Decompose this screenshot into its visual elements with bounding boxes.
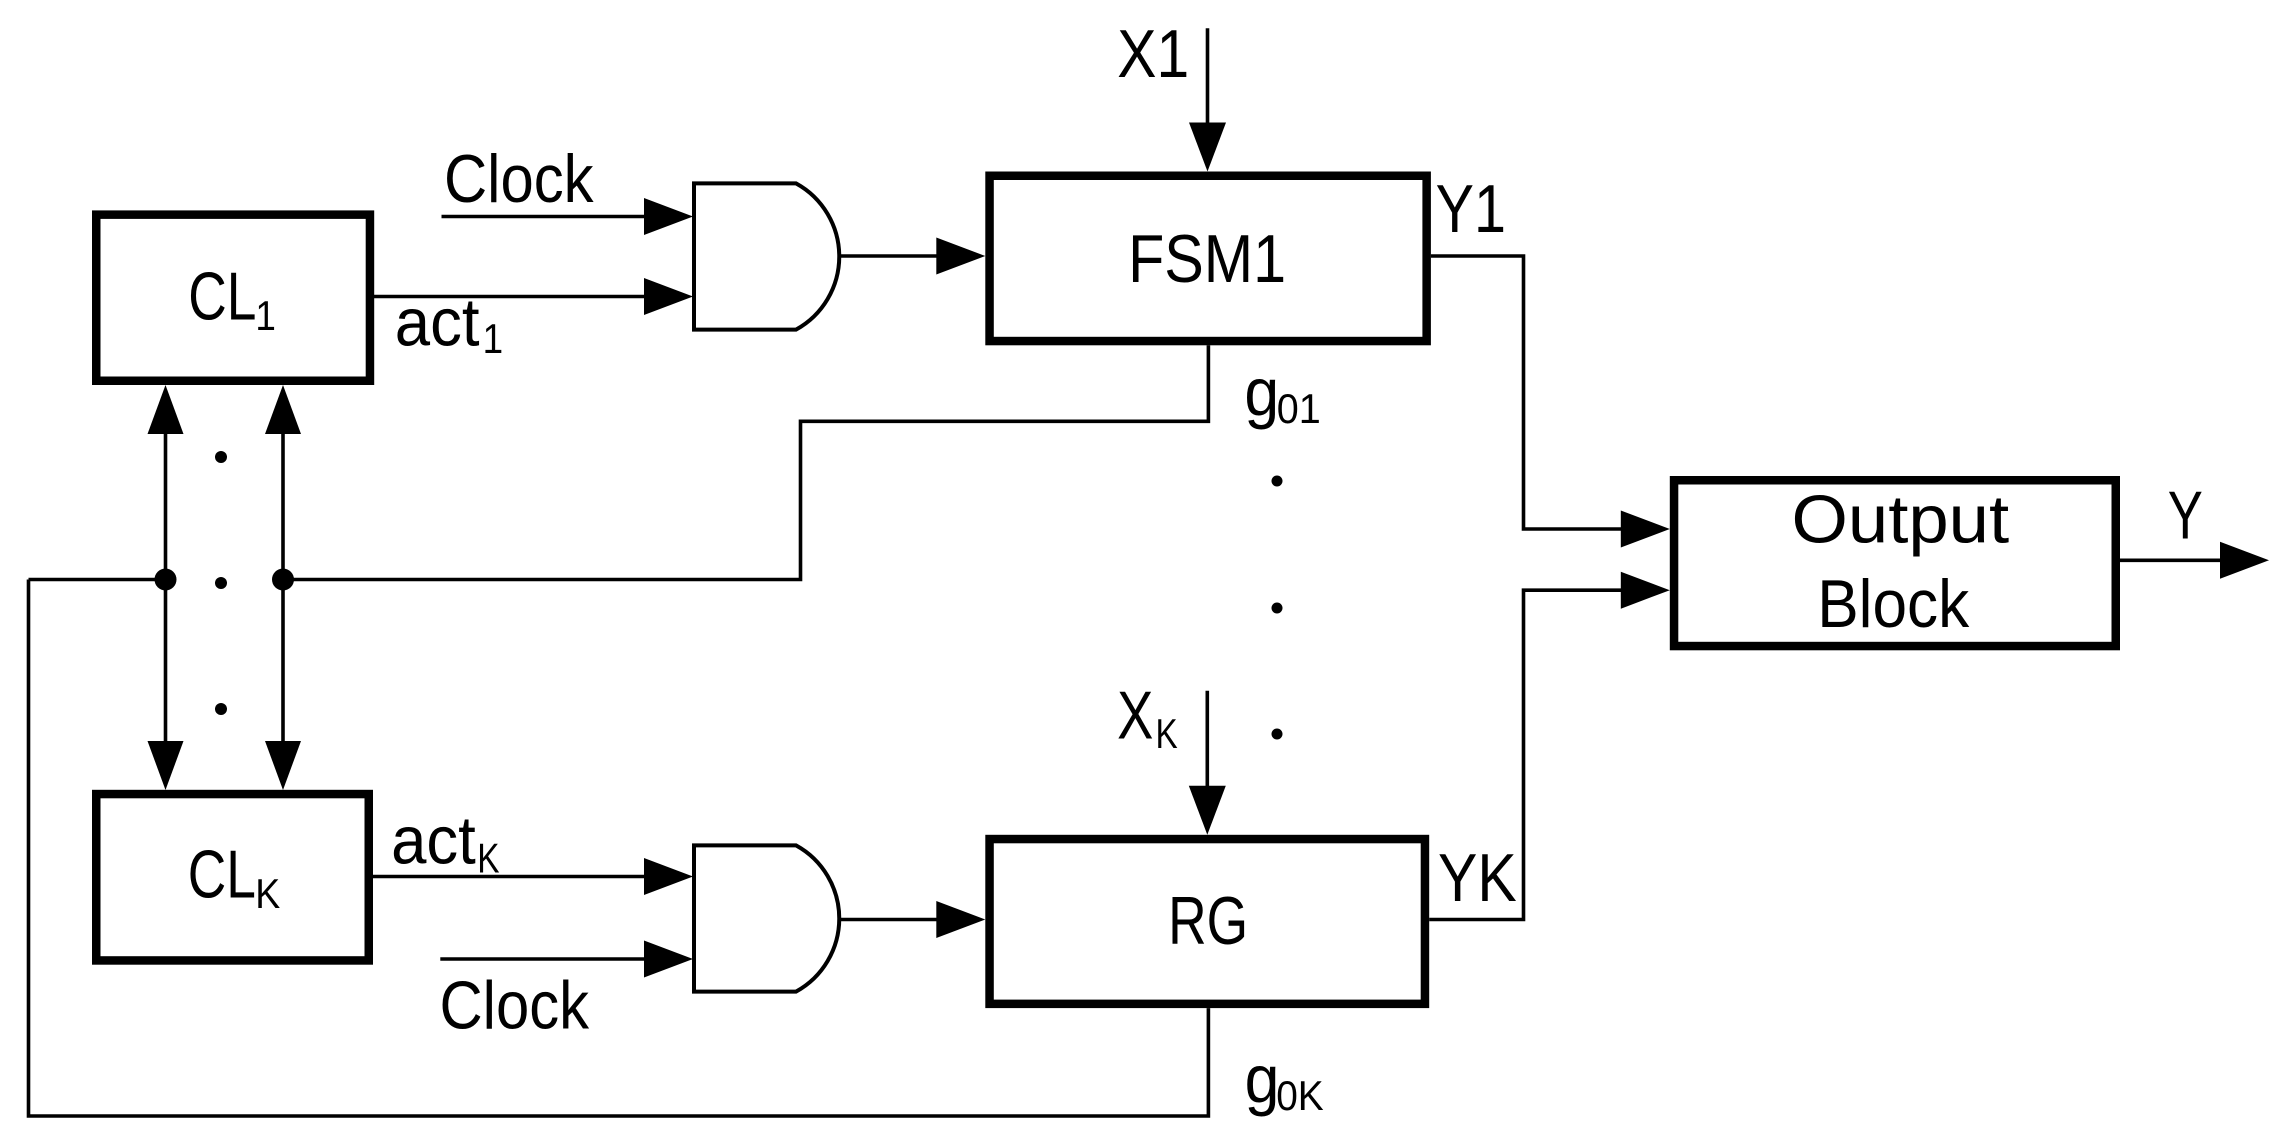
svg-text:K: K [255,871,280,917]
svg-text:YK: YK [1438,841,1517,916]
svg-text:X1: X1 [1117,17,1189,92]
svg-text:Output: Output [1792,482,2010,557]
svg-text:g: g [1244,354,1279,430]
svg-text:K: K [477,836,499,882]
svg-text:Y: Y [2168,477,2203,553]
svg-text:FSM1: FSM1 [1128,223,1286,297]
svg-text:Clock: Clock [440,967,590,1043]
svg-text:1: 1 [255,293,276,340]
svg-text:act: act [391,803,476,878]
svg-text:RG: RG [1168,883,1248,958]
svg-text:K: K [1156,711,1178,758]
svg-text:Y1: Y1 [1436,172,1506,247]
svg-text:0K: 0K [1276,1072,1324,1120]
svg-text:g: g [1245,1041,1280,1117]
svg-text:1: 1 [483,316,504,363]
svg-text:CL: CL [188,258,256,333]
svg-text:Block: Block [1817,566,1970,642]
svg-text:act: act [395,285,480,360]
svg-text:01: 01 [1277,385,1321,432]
svg-text:CL: CL [188,836,256,911]
svg-text:X: X [1117,678,1153,753]
svg-text:Clock: Clock [444,141,594,217]
